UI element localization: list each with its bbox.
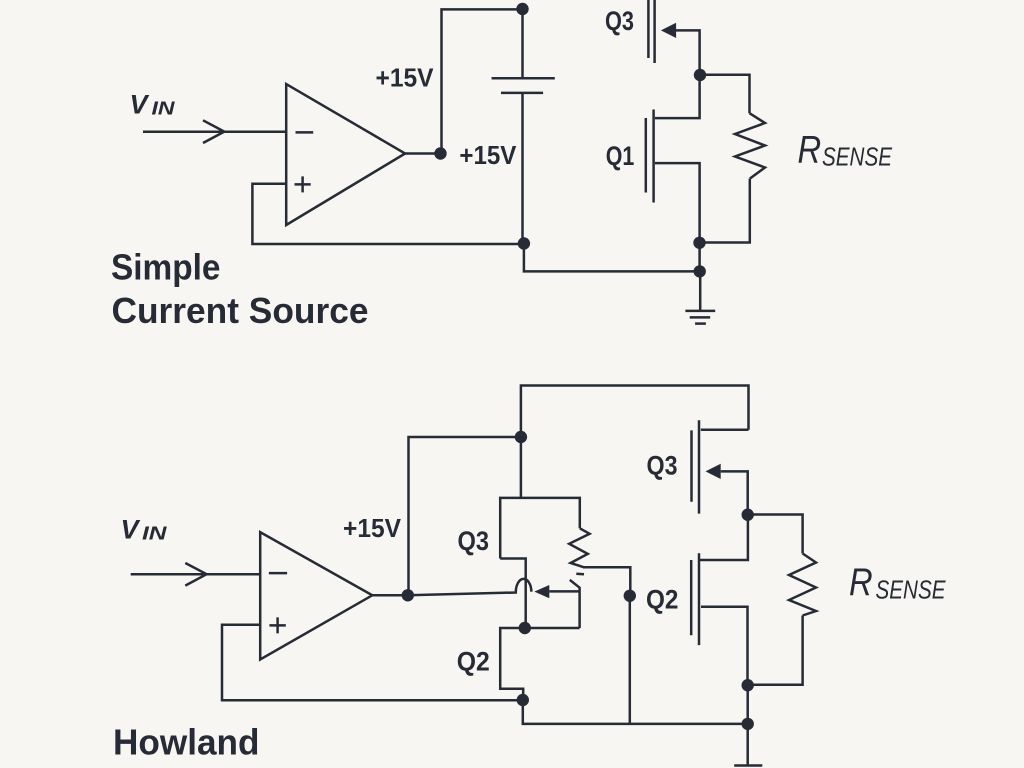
wire VIN input to op-amp inverting input [143,131,286,134]
wire op-amp U2 plus feedback [222,625,523,700]
node feedback/cap junction dot [518,237,530,249]
node Q2 source / RSENSE bottom dot [742,679,754,691]
wire op-amp output [405,152,440,155]
node Q3/Q2/RSENSE junction dot [742,509,754,521]
+15V label upper [376,63,435,93]
wire +15V rail (Howland) [409,437,521,595]
svg-text:R: R [849,559,873,603]
svg-text:IN: IN [142,524,168,544]
transistor Q2 (middle) label [646,585,678,615]
wire to RSENSE top [700,75,750,114]
svg-text:Q3: Q3 [605,6,634,36]
resistor R1 sketch dash [576,572,584,575]
node VIN label [130,90,176,120]
wire op-amp plus input feedback [252,184,524,244]
node VIN label (Howland) [121,515,168,545]
wire RSENSE (Howland) bottom lead [748,616,803,685]
op-amp U2 plus sign [269,617,285,633]
wire down to ground [698,243,701,272]
arrow input signal chevron [203,120,224,143]
RSENSE label (Howland) [849,559,946,604]
node Q1 source / RSENSE dot [693,237,705,249]
svg-text:Q2: Q2 [646,585,678,615]
wire to RSENSE (Howland) top [748,515,803,554]
svg-text:V: V [130,90,150,120]
wire wiper down to bottom rail [629,596,632,724]
wire VIN input (Howland) [131,573,261,576]
RSENSE label (top) [798,127,893,172]
arrow input chevron (Howland) [185,563,206,586]
node rail junction dot (Howland) [515,431,527,443]
transistor Q3 [648,0,699,75]
resistor RSENSE (top circuit) [735,113,765,178]
transistor Q2 (left) label [457,647,490,677]
svg-text:Q3: Q3 [647,451,678,481]
wire bottom rail [523,700,748,724]
wire +15V rail [442,9,523,153]
op-amp U1 plus sign [295,176,311,192]
wire down to bottom rail [746,685,749,724]
svg-text:V: V [121,515,141,545]
ground (top circuit) [685,311,715,324]
title Howland [113,722,260,763]
node ground rail dot [694,265,706,277]
svg-text:+15V: +15V [459,140,517,170]
wire wiper tap [583,567,630,596]
svg-text:Q2: Q2 [457,647,490,677]
+15V label at output [459,140,517,170]
node Q3 source junction dot [694,69,706,81]
svg-text:R: R [798,127,822,171]
transistor Q3 (left) body [500,498,580,559]
arrow Q3 gate arrowhead [661,23,676,38]
svg-text:Current Source: Current Source [112,290,369,331]
resistor RSENSE (Howland) [789,554,816,616]
wire op-amp U2 output [372,594,408,597]
arrow gate arrowhead (middle) [534,585,549,598]
op-amp U1 [286,84,405,225]
op-amp U2 [260,532,372,659]
svg-text:Howland: Howland [113,722,260,763]
resistor R1 lower diagonal lead [570,580,580,628]
title Simple Current Source [111,246,369,331]
capacitor C1 [492,9,555,244]
wire ground stem [699,271,702,311]
node feedback junction dot [517,694,529,706]
svg-text:Simple: Simple [111,246,221,287]
wire output to gate with hop [408,579,532,595]
transistor Q3 (right) [692,420,749,514]
wire Q2-left box [500,628,579,700]
svg-text:IN: IN [152,99,176,119]
op-amp U1 minus sign [296,131,314,134]
transistor Q1 [646,75,700,243]
svg-text:+15V: +15V [343,513,402,543]
node output junction dot [434,147,446,159]
transistor Q3 label [605,6,634,36]
transistor Q3 (right) label [647,451,678,481]
svg-text:Q1: Q1 [606,141,635,171]
wire RSENSE bottom lead [700,179,750,243]
wire top rail to Q3 drain [521,386,749,438]
node U2 output dot [402,589,414,601]
transistor Q1 label [606,141,635,171]
node bottom rail dot [742,718,754,730]
wire Q3-left source step [500,559,526,629]
svg-text:SENSE: SENSE [876,575,947,605]
transistor Q3 (left) label [458,526,490,556]
node rail/cap junction dot [516,3,528,15]
resistor R1 potentiometer zigzag [569,528,589,567]
svg-text:SENSE: SENSE [822,142,893,172]
node Q2-left top dot [519,622,531,634]
wire cap bottom to ground rail [524,244,700,272]
wire arrowhead to resistor lead [549,590,579,593]
svg-text:Q3: Q3 [458,526,490,556]
transistor Q2 (right) [691,515,748,686]
arrow Q3 right gate arrowhead [706,464,721,479]
wire ground stem (Howland) [746,724,749,766]
wire rail down to Q3-left box [520,437,523,498]
ground (Howland) [734,764,762,767]
svg-text:+15V: +15V [376,63,435,93]
node wiper Q2 gate dot [624,590,636,602]
op-amp U2 minus sign [269,572,287,575]
+15V label (Howland) [343,513,402,543]
